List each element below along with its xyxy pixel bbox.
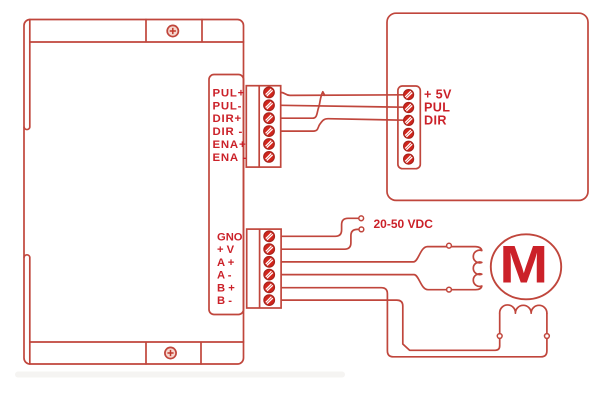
driver top bar xyxy=(30,20,244,43)
svg-text:PUL-: PUL- xyxy=(213,100,243,112)
top terminal screw block xyxy=(246,86,280,167)
svg-text:GNO: GNO xyxy=(217,231,243,243)
svg-text:PUL+: PUL+ xyxy=(213,87,246,99)
svg-text:A +: A + xyxy=(217,257,235,269)
controller screw 2 xyxy=(404,103,414,113)
mounting screw bottom xyxy=(165,347,176,358)
controller screw 6 xyxy=(404,154,414,164)
node phase A node 2 xyxy=(447,287,452,292)
node phase A node 1 xyxy=(447,243,452,248)
wire GND to supply xyxy=(281,218,359,236)
terminal screw A- xyxy=(264,269,275,280)
driver body outline xyxy=(24,20,244,365)
svg-text:ENA+: ENA+ xyxy=(213,139,247,151)
wire A+ and phase A winding xyxy=(281,247,482,290)
svg-text:A -: A - xyxy=(217,270,232,282)
svg-text:+ 5V: + 5V xyxy=(424,88,452,102)
phase B winding top xyxy=(500,305,547,313)
node phase B node 1 xyxy=(497,334,502,339)
svg-text:ENA -: ENA - xyxy=(213,152,248,164)
terminal screw A+ xyxy=(264,257,275,268)
wire B+ to phase B winding right xyxy=(281,288,547,357)
terminal screw ENA+ xyxy=(264,139,275,150)
svg-text:B -: B - xyxy=(217,295,232,307)
node supply terminal + xyxy=(359,216,364,221)
svg-text:20-50 VDC: 20-50 VDC xyxy=(374,217,434,231)
controller screw 3 xyxy=(404,115,414,125)
node supply terminal - xyxy=(359,227,364,232)
controller screw 4 xyxy=(404,128,414,138)
terminal screw DIR+ xyxy=(264,113,275,124)
background smudge xyxy=(15,372,345,378)
svg-text:DIR -: DIR - xyxy=(213,126,244,138)
svg-text:DIR: DIR xyxy=(424,113,447,127)
terminal screw GNO xyxy=(264,231,275,242)
wire DIR+ jumper to +5V junction xyxy=(281,92,325,118)
wire B- to phase B winding left xyxy=(281,300,500,350)
driver bottom bar xyxy=(30,342,244,364)
wire DIR- to DIR xyxy=(281,119,404,131)
bottom terminal screw block xyxy=(247,229,281,308)
mounting screw top xyxy=(167,25,178,36)
terminal screw B+ xyxy=(264,282,275,293)
flange slot bottom xyxy=(24,255,30,364)
wire +V to supply xyxy=(281,229,359,249)
controller screw 5 xyxy=(404,141,414,151)
svg-text:B +: B + xyxy=(217,282,235,294)
controller screw 1 xyxy=(404,90,414,100)
terminal screw ENA- xyxy=(264,152,275,163)
wire PUL- to PUL xyxy=(281,105,404,107)
terminal screw +V xyxy=(264,244,275,255)
svg-text:M: M xyxy=(499,235,548,294)
node phase B node 2 xyxy=(545,334,550,339)
terminal screw PUL- xyxy=(264,100,275,111)
controller box xyxy=(387,13,588,200)
wire PUL+ to +5V xyxy=(281,92,404,95)
terminal screw PUL+ xyxy=(264,87,275,98)
svg-text:DIR+: DIR+ xyxy=(213,113,242,125)
controller terminal strip xyxy=(398,86,420,169)
flange slot top xyxy=(24,20,30,130)
terminal screw DIR- xyxy=(264,126,275,137)
svg-text:+ V: + V xyxy=(217,244,235,256)
label box top terminals xyxy=(209,75,244,315)
motor circle xyxy=(491,234,561,299)
svg-text:PUL: PUL xyxy=(424,101,450,115)
terminal screw B- xyxy=(264,295,275,306)
